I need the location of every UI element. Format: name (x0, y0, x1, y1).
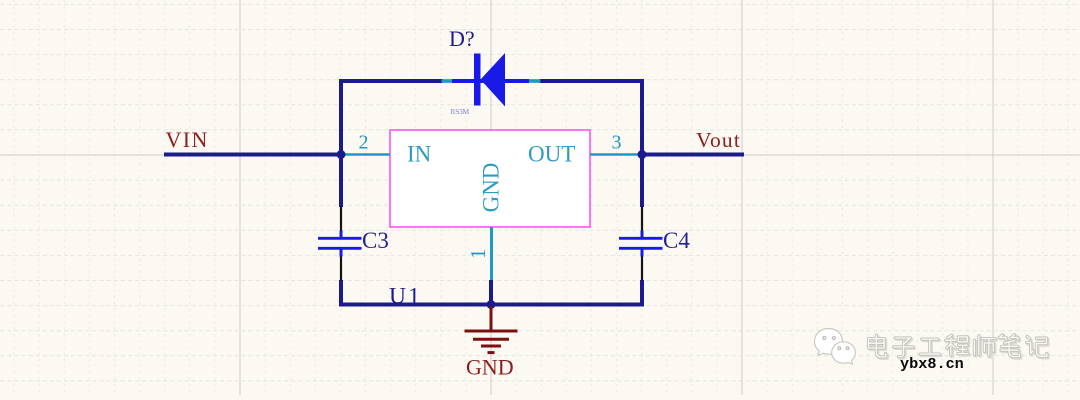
svg-text:U1: U1 (389, 284, 422, 310)
regulator U1 body (390, 130, 590, 227)
wire left rail lower (C3 to bottom wire) (339, 280, 343, 307)
svg-text:ybx8.cn: ybx8.cn (900, 355, 964, 373)
net label Vout (696, 128, 741, 152)
svg-text:IN: IN (407, 142, 432, 167)
wire bottom (339, 303, 644, 307)
junction node B (638, 150, 647, 159)
junction node A (337, 150, 346, 159)
svg-text:C4: C4 (663, 228, 690, 253)
label C4 (663, 228, 690, 253)
svg-text:1: 1 (466, 249, 490, 259)
svg-text:OUT: OUT (528, 142, 575, 167)
watermark logo bubbles (815, 329, 856, 365)
capacitor C3 (318, 207, 362, 281)
diode D? pin leads (442, 79, 541, 83)
watermark url ybx8.cn (900, 355, 964, 373)
wire left rail upper (node A to C3) (339, 153, 343, 207)
svg-text:3: 3 (612, 132, 622, 154)
pin 2 IN (343, 132, 432, 167)
label C3 (362, 228, 389, 253)
wire top left (node A up and over to diode) (339, 81, 443, 157)
wire node B to Vout (640, 153, 744, 157)
diode D? body (474, 53, 505, 107)
wire pin1 to bottom (489, 280, 493, 307)
net label VIN (166, 127, 209, 152)
svg-text:GND: GND (479, 163, 504, 213)
label GND (466, 355, 514, 380)
svg-text:RS3M: RS3M (451, 107, 470, 116)
pin 3 OUT (528, 132, 640, 167)
wire right rail upper (node B to C4) (640, 153, 644, 207)
junction node GND (487, 300, 496, 309)
svg-text:C3: C3 (362, 228, 389, 253)
svg-text:2: 2 (359, 132, 369, 154)
svg-text:GND: GND (466, 355, 514, 380)
wire VIN to node A (164, 153, 343, 157)
pin 1 GND (466, 163, 504, 281)
svg-text:VIN: VIN (166, 127, 209, 152)
ground symbol (465, 306, 518, 353)
svg-text:D?: D? (449, 26, 475, 51)
svg-text:Vout: Vout (696, 128, 741, 152)
label D? (449, 26, 475, 51)
value label RS3M (451, 107, 470, 116)
capacitor C4 (619, 207, 663, 281)
label U1 (389, 284, 422, 310)
wire top right (diode to node B) (539, 79, 642, 157)
wire right rail lower (C4 to bottom wire) (640, 280, 644, 307)
